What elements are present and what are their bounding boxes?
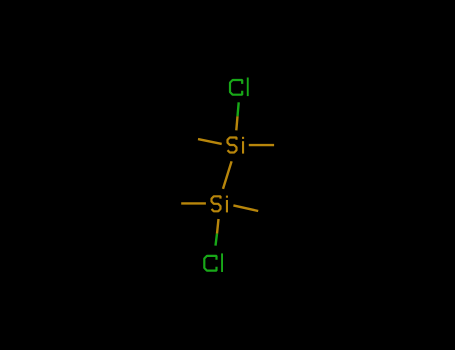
atom Cl2 label (bottom chlorine) bbox=[204, 256, 216, 271]
atom Si1 label (upper silicon) bbox=[228, 138, 237, 153]
bond Si2-C(methyl) lower right, silicon half bbox=[233, 205, 258, 211]
atom Si2 label (lower silicon) bbox=[212, 196, 221, 211]
bond Si1-C(methyl) upper right, silicon half bbox=[249, 144, 274, 146]
atom Cl1 label (top chlorine) bbox=[230, 80, 242, 95]
bond Si1-C(methyl) upper left, silicon half bbox=[198, 139, 222, 144]
bond Si2-Cl2 (chlorine half, green) bbox=[216, 234, 218, 246]
bond Cl1-Si1 (silicon half, gold) bbox=[236, 116, 237, 130]
bond Si2-Cl2 (silicon half, gold) bbox=[217, 219, 219, 234]
bond Cl1-Si1 (chlorine half, green) bbox=[238, 102, 239, 116]
bond Si1-Si2 bbox=[223, 161, 232, 189]
bond Si2-C(methyl) lower left, silicon half bbox=[181, 202, 206, 204]
